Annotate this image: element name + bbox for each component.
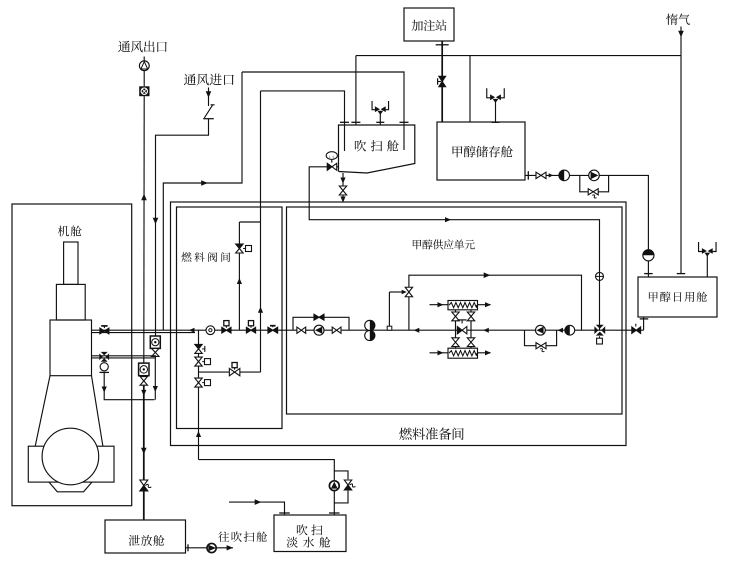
- storage PV stem: [495, 102, 497, 123]
- day tank top flange 1: [644, 273, 653, 275]
- sight indicator: [206, 326, 215, 335]
- hx valve top-left: [452, 312, 459, 316]
- hx left riser: [455, 310, 457, 348]
- engine base: [28, 446, 114, 482]
- label 淡水舱: [287, 537, 331, 548]
- purge inlet valve: [327, 163, 332, 170]
- hp pump 1: [536, 325, 546, 335]
- flow meter 2 box: [139, 363, 149, 376]
- water tank feed stub: [229, 502, 285, 515]
- label 吹扫舱: [355, 140, 399, 152]
- label 泄放舱: [129, 535, 165, 546]
- purge water relief valve: [344, 480, 351, 485]
- main valve 1: [222, 327, 227, 333]
- methanol supply unit box 甲醇供应单元: [287, 207, 623, 414]
- heater top inlet: [430, 304, 449, 306]
- label 甲醇供应单元: [413, 239, 475, 249]
- vr column: [198, 330, 200, 459]
- vr valve 3: [195, 378, 202, 383]
- vent fan circle: [139, 61, 149, 71]
- purge drain arrow2: [340, 197, 345, 203]
- main arrow between pumps: [557, 328, 563, 333]
- purge tank PV stem: [379, 114, 381, 126]
- flange purge right: [400, 121, 409, 123]
- vr up arrow: [196, 431, 201, 437]
- day tank top flange 2: [677, 273, 686, 275]
- main line arrow to engine: [189, 328, 195, 333]
- main fuel line: [92, 329, 644, 331]
- label 机舱: [58, 226, 82, 237]
- engine left slant: [35, 376, 50, 447]
- lp pump bypass: [293, 317, 349, 330]
- heater top box: [448, 301, 478, 310]
- label 通风进口: [184, 74, 234, 86]
- label 甲醇储存舱: [453, 146, 513, 158]
- nitrogen purge drop line: [260, 91, 262, 372]
- purge tank middle riser: [355, 56, 357, 125]
- heater bottom box: [448, 348, 478, 358]
- drain tank box 泄放舱: [105, 520, 186, 553]
- heater bottom inlet: [430, 352, 449, 354]
- main arrow after recirc: [414, 328, 420, 333]
- purge water relief loop: [334, 471, 348, 479]
- purge tank 吹扫舱 polygon: [339, 125, 415, 173]
- water tank right flange: [329, 512, 340, 514]
- main valve 2: [246, 327, 251, 333]
- vent outlet long line: [143, 96, 145, 363]
- engine mid block: [56, 284, 85, 320]
- PV valve storage: [487, 88, 505, 98]
- main arrow after hx: [483, 328, 489, 333]
- recirc pilot line: [389, 291, 403, 293]
- vent inlet down arrow: [153, 218, 159, 225]
- transfer pump 2: [589, 170, 600, 181]
- vent collect line y72: [242, 72, 404, 150]
- arrow down meter1 line: [153, 386, 158, 392]
- flange purge left: [340, 121, 349, 123]
- valve on x239: [236, 244, 243, 249]
- transfer bypass: [580, 175, 609, 191]
- heater bottom coil: [449, 351, 477, 356]
- purge return pipe: [309, 167, 599, 330]
- vr valve 2: [195, 357, 202, 362]
- three-way valve drain square: [599, 336, 601, 338]
- purge water pump: [329, 481, 339, 491]
- duplex meter circles: [365, 320, 375, 330]
- level transmitter day tank: [643, 250, 654, 261]
- return flange: [99, 371, 109, 373]
- methanol day tank 甲醇日用舱: [638, 277, 717, 317]
- up arrow x239: [237, 278, 242, 284]
- day tank PV stem: [706, 255, 708, 277]
- engine return pipe: [92, 355, 156, 357]
- return 4-way valve: [99, 353, 102, 360]
- vent inlet arrow line: [208, 88, 210, 107]
- PV valve purge tank: [372, 101, 389, 110]
- fuel preparation room box 燃料准备间: [171, 202, 627, 446]
- inert gas arrow: [678, 31, 684, 38]
- transfer bypass relief: [588, 189, 593, 195]
- branch x239 line: [238, 222, 240, 330]
- lp bypass valve: [314, 314, 319, 320]
- LS instrument oval: [326, 152, 337, 160]
- inert gas line 惰气: [680, 27, 682, 274]
- hx right riser: [470, 310, 472, 348]
- purge return arrow: [445, 217, 451, 222]
- label 通风出口: [118, 41, 167, 53]
- label 往吹扫舱: [218, 531, 267, 542]
- vent outlet up arrow: [141, 194, 147, 201]
- day tank bottom riser: [643, 317, 645, 330]
- annular vent arrow: [201, 180, 208, 186]
- engine return pipe outer wall: [92, 357, 156, 359]
- flange storage pv: [492, 121, 500, 123]
- drain outlet arrow: [227, 545, 233, 550]
- storage outlet line: [525, 175, 648, 277]
- engine skirt: [49, 482, 92, 492]
- annular vent riser: [163, 72, 242, 330]
- vent outlet stub: [143, 57, 145, 62]
- drain tank outlet line: [186, 547, 234, 549]
- storage outlet valve: [536, 172, 541, 178]
- engine right slant: [92, 376, 103, 447]
- engine funnel: [64, 242, 78, 284]
- bunkering riser: [441, 41, 443, 122]
- branch y222: [239, 221, 260, 223]
- fire damper square: [139, 86, 149, 96]
- recirc riser: [409, 275, 582, 330]
- vent line upper: [143, 71, 145, 87]
- PV valve day tank: [699, 242, 717, 252]
- label 甲醇日用舱: [649, 292, 707, 302]
- lp suction valve: [297, 327, 301, 333]
- water tank left flange: [279, 512, 290, 514]
- return drop arrow: [102, 387, 107, 393]
- heater bottom outlet: [478, 352, 491, 354]
- label 加注站: [412, 20, 447, 31]
- purge drain valve: [339, 186, 346, 191]
- pressure indicator on purge return: [596, 272, 604, 280]
- recirc arrow: [484, 272, 491, 278]
- label 燃料准备间: [399, 427, 464, 440]
- engine crankcase circle: [42, 428, 99, 485]
- fuel valve room box 燃料阀间: [177, 207, 283, 429]
- up arrow purge drop: [258, 307, 263, 313]
- meter1 line lower: [154, 356, 156, 399]
- vr branch valve: [229, 368, 234, 375]
- feed stub arrow: [255, 499, 262, 505]
- purge pipe left horizontal: [261, 91, 345, 151]
- vr branch: [199, 371, 261, 373]
- flange purge mid: [351, 121, 360, 123]
- hx valve bottom-left: [452, 338, 459, 342]
- flange bunkering: [436, 44, 449, 46]
- hx valve top-right: [467, 312, 474, 316]
- hp bypass relief valve: [536, 343, 541, 349]
- recirc valve: [405, 287, 412, 292]
- hp pump 2: [565, 325, 575, 335]
- lp discharge valve: [332, 327, 336, 333]
- drain outlet flange: [187, 544, 189, 551]
- lp pump: [314, 325, 324, 335]
- engine room box 机舱: [12, 204, 132, 506]
- label 吹扫: [297, 524, 322, 535]
- valve below meter1: [152, 348, 159, 352]
- engine supply pipe outer wall: [92, 332, 195, 334]
- relief valve drain 泄放舱 inlet: [140, 480, 148, 486]
- label 惰气: [666, 14, 690, 25]
- day tank outlet valve: [632, 327, 636, 333]
- flange purge pv: [376, 121, 384, 123]
- label 燃料阀间: [182, 252, 231, 262]
- line meter2 to drain tank: [143, 385, 145, 520]
- butterfly damper: [203, 118, 214, 120]
- vent inlet arrow: [206, 91, 212, 98]
- methanol storage tank 甲醇储存舱: [437, 122, 525, 180]
- LS stem: [331, 160, 333, 163]
- valve bunkering: [439, 76, 446, 81]
- arrow down drain feed: [141, 448, 147, 455]
- bunkering station box 加注站: [404, 8, 454, 41]
- main valve 3: [268, 327, 273, 333]
- valve below meter2: [140, 377, 147, 381]
- purge fresh water tank box 吹扫淡水舱: [274, 515, 346, 552]
- return drop line: [104, 372, 154, 399]
- heater top coil: [449, 303, 477, 308]
- heater top outlet: [478, 304, 491, 306]
- three-way valve: [594, 326, 598, 334]
- storage tank riser: [469, 56, 471, 122]
- vr valve 1: [195, 344, 202, 349]
- engine supply valve: [100, 328, 105, 334]
- transfer pump 1: [559, 170, 570, 181]
- purge return stub: [337, 166, 339, 168]
- flow meter 1 box: [150, 336, 160, 348]
- hx center valve: [457, 327, 462, 334]
- storage outlet flange: [527, 171, 529, 180]
- purge drain line: [342, 173, 344, 201]
- hx valve bottom-right: [467, 338, 474, 342]
- return sight glass circle: [100, 363, 108, 371]
- arrow down meter2: [141, 390, 146, 396]
- top trunk header: [356, 55, 681, 57]
- purge drain arrow1: [340, 178, 345, 184]
- drain pump: [207, 543, 216, 552]
- hp pump bypass: [525, 330, 557, 346]
- purge water feed line: [199, 460, 335, 515]
- vent inlet pipe: [156, 119, 209, 336]
- day tank bottom flange: [640, 318, 649, 320]
- recirc pilot sensor square: [387, 326, 392, 330]
- engine upper block: [50, 320, 92, 376]
